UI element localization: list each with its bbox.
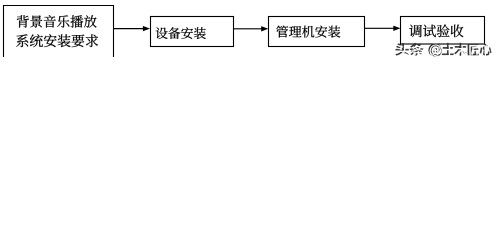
box1 text line 2: 系统安装要求 (16, 34, 98, 47)
box4 text: 调试验收 (409, 25, 463, 38)
background (0, 0, 496, 57)
watermark logo circle with @ (429, 44, 442, 57)
watermark text: 头条 (396, 43, 425, 57)
box1 text line 1: 背景音乐播放 (17, 15, 97, 27)
process box 2: 设备安装 (151, 17, 234, 47)
watermark text: 土木匠心 (442, 43, 493, 57)
process box 4: 调试验收 (401, 17, 485, 45)
arrow connector box2 -> box3 (234, 26, 269, 31)
process box 3: 管理机安装 (269, 17, 365, 47)
process box 1: 背景音乐播放系统安装要求 (bottom clipped by image edge) (4, 6, 114, 59)
arrow connector box3 -> box4 (365, 26, 401, 31)
arrow connector box1 -> box2 (114, 26, 151, 31)
box2 text: 设备安装 (156, 27, 206, 39)
box3 text: 管理机安装 (276, 26, 340, 38)
